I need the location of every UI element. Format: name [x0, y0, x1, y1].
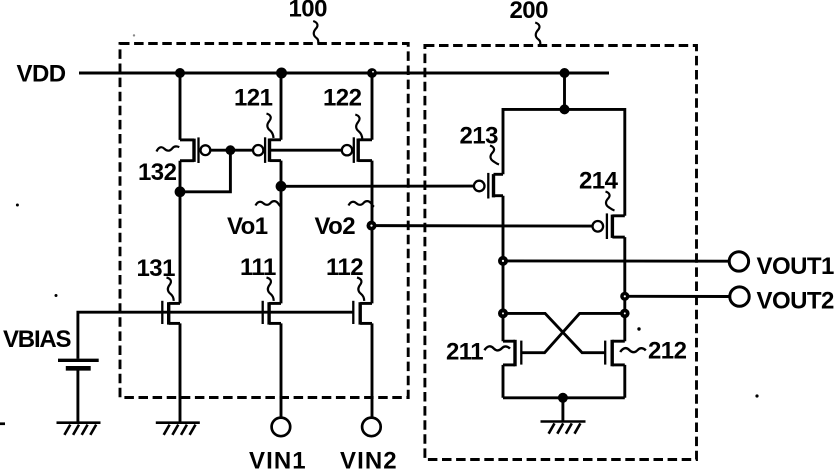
svg-text:VIN2: VIN2	[340, 448, 398, 471]
svg-text:111: 111	[240, 254, 276, 281]
squiggle leader 122	[355, 115, 362, 140]
svg-text:214: 214	[579, 167, 619, 194]
transistor 214 (PMOS)	[593, 213, 625, 239]
node dot cross left	[498, 308, 508, 318]
svg-text:211: 211	[446, 338, 483, 365]
squiggle leader 112	[357, 278, 364, 301]
ground under 131	[156, 423, 200, 435]
squiggle leader 100	[313, 21, 318, 44]
node dot VDD-121	[276, 68, 287, 79]
svg-text:VDD: VDD	[17, 61, 66, 88]
node dot cross right	[620, 309, 630, 319]
wire right vertical (122/112 branch)	[371, 73, 374, 418]
block 100 dashed box	[120, 44, 408, 398]
squiggle leader Vo2	[349, 201, 375, 207]
node dot VOUT2 tap	[620, 292, 629, 301]
wire block 200 top rail	[503, 109, 625, 215]
svg-text:132: 132	[138, 159, 177, 186]
svg-text:100: 100	[289, 0, 328, 23]
block 200 dashed box	[425, 46, 697, 460]
svg-text:VOUT2: VOUT2	[757, 288, 834, 315]
svg-text:212: 212	[648, 338, 687, 365]
squiggle leader 213	[490, 146, 499, 165]
wire node Vo1 line to 213 gate	[281, 185, 474, 188]
wire node Vo2 line to 214 gate	[372, 224, 593, 227]
svg-text:122: 122	[323, 85, 362, 112]
wire VOUT1 line	[503, 259, 729, 262]
node dot top rail 200	[560, 104, 570, 114]
svg-text:VIN1: VIN1	[249, 448, 307, 471]
squiggle leader 121	[267, 114, 274, 139]
battery VBIAS	[58, 360, 99, 368]
transistor 212 (NMOS)	[605, 340, 625, 367]
node dot bottom rail 200	[558, 393, 568, 403]
node dot gate junction 132/121	[226, 145, 236, 155]
transistor 213 (PMOS)	[474, 173, 503, 199]
wire center vertical (121/111 branch)	[280, 73, 283, 418]
wire VBIAS gate line	[78, 312, 353, 359]
svg-text:121: 121	[234, 85, 273, 112]
transistor 121 (PMOS)	[253, 137, 281, 163]
wire block 200 left vertical	[502, 196, 505, 398]
svg-text:112: 112	[326, 254, 363, 281]
svg-text:VBIAS: VBIAS	[3, 326, 72, 353]
transistor 131 (NMOS)	[162, 301, 180, 325]
squiggle leader 132	[157, 146, 180, 151]
node dot VOUT1 tap	[498, 256, 508, 266]
speck marks	[755, 394, 758, 397]
wire VDD rail	[79, 71, 609, 74]
wire block 200 right vertical	[623, 237, 626, 398]
transistor 211 (NMOS)	[503, 340, 521, 367]
terminal VOUT1	[729, 252, 748, 271]
ground block 200	[541, 422, 586, 434]
node dot VDD-122	[367, 68, 377, 78]
wire VDD tap into block 200	[563, 73, 566, 109]
svg-text:200: 200	[510, 0, 549, 24]
squiggle leader 111	[267, 278, 274, 301]
squiggle leader 131	[167, 278, 174, 301]
wire VBIAS battery to ground	[76, 370, 79, 423]
terminal VIN2	[362, 418, 381, 437]
squiggle leader 200	[535, 23, 540, 45]
node dot VDD-132	[175, 68, 185, 78]
svg-text:213: 213	[460, 122, 499, 149]
wire block 200 bottom rail	[503, 396, 625, 399]
wire cross-couple left node to 212 gate	[503, 313, 605, 352]
ground under VBIAS	[57, 423, 101, 435]
terminal VIN1	[272, 418, 291, 437]
node dot 132 feedback	[175, 186, 186, 197]
node dot Vo2	[367, 221, 377, 231]
wire 121 drain to 122 gate	[270, 149, 342, 152]
wire cross-couple right node to 211 gate	[521, 313, 625, 352]
squiggle leader Vo1	[256, 201, 282, 207]
svg-text:VOUT1: VOUT1	[757, 253, 834, 280]
squiggle leader 211	[484, 346, 510, 350]
transistor 111 (NMOS)	[263, 301, 281, 325]
svg-text:Vo2: Vo2	[315, 213, 356, 240]
squiggle leader 214	[606, 192, 615, 211]
svg-text:Vo1: Vo1	[227, 213, 268, 240]
node dot VDD-200	[560, 68, 570, 78]
squiggle leader 212	[620, 348, 646, 352]
node dot Vo1	[276, 181, 287, 192]
wire gate line 132-121	[210, 149, 253, 152]
transistor 112 (NMOS)	[353, 301, 372, 325]
wire ground tap block 200	[561, 398, 564, 422]
transistor 132 (PMOS)	[180, 137, 210, 163]
wire VOUT2 line	[625, 295, 730, 298]
wire left vertical (132/131 branch)	[179, 73, 182, 423]
terminal VOUT2	[730, 287, 749, 306]
transistor 122 (PMOS)	[342, 137, 372, 163]
svg-text:131: 131	[137, 255, 176, 282]
wire 132 gate-drain feedback	[180, 150, 230, 192]
